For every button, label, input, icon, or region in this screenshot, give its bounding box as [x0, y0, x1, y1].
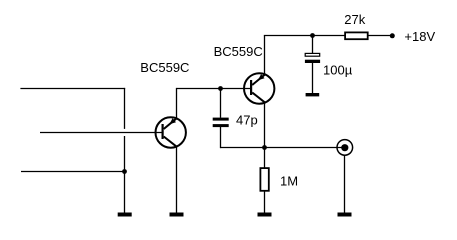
wire 47p bottom lead: [220, 127, 222, 148]
connector J1 center pin: [341, 144, 348, 151]
resistor R2 1M: [260, 168, 268, 191]
wire input top line: [20, 88, 125, 90]
wire input bus vertical lower segment: [124, 136, 126, 213]
capacitor C1 47p: [213, 118, 229, 128]
node junction input bottom line to ground bus: [122, 169, 127, 174]
ground under Q1 collector: [170, 213, 184, 217]
wire Q1 collector down to ground: [176, 146, 178, 213]
wire Q2 collector down: [264, 102, 266, 148]
capacitor C2 100u electrolytic positive plate: [305, 53, 320, 56]
node junction 100u tap: [310, 33, 315, 38]
wire input middle line (signal to Q1 base): [40, 132, 162, 134]
svg-text:BC559C: BC559C: [214, 44, 263, 59]
ground under 1M: [258, 213, 272, 217]
ground under input bus: [118, 213, 132, 217]
wire connector sleeve to ground: [344, 155, 346, 213]
svg-text:100µ: 100µ: [323, 63, 353, 78]
resistor R1 27k: [345, 32, 368, 39]
wire 100u bottom lead: [312, 63, 314, 94]
wire 1M bottom lead: [264, 191, 266, 214]
wire 1M top lead: [264, 148, 266, 169]
wire top supply rail: [264, 35, 393, 37]
transistor Q2 BC559C: [244, 73, 274, 103]
wire output line to connector: [220, 147, 345, 149]
wire input bus vertical upper segment: [124, 88, 126, 129]
wire Q2 emitter up to rail: [264, 36, 266, 75]
wire 47p top lead: [220, 89, 222, 118]
ground under 100u: [306, 93, 320, 96]
svg-text:1M: 1M: [280, 173, 298, 188]
node +18V terminal dot: [390, 33, 395, 38]
wire 100u top lead: [312, 36, 314, 54]
svg-text:+18V: +18V: [404, 29, 435, 44]
node junction 47p tap: [218, 86, 223, 91]
capacitor C2 100u negative plate: [305, 60, 320, 63]
svg-text:27k: 27k: [344, 12, 365, 27]
transistor Q1 BC559C: [156, 117, 186, 147]
node junction collector / 1M / output: [262, 145, 267, 150]
ground under connector: [338, 213, 352, 217]
wire Q1 emitter to Q2 base: [177, 88, 251, 90]
wire Q1 emitter up: [176, 88, 178, 119]
svg-text:BC559C: BC559C: [140, 60, 189, 75]
wire input bottom line: [21, 171, 125, 173]
connector J1 output socket outer ring: [337, 140, 353, 156]
svg-text:47p: 47p: [236, 113, 258, 128]
